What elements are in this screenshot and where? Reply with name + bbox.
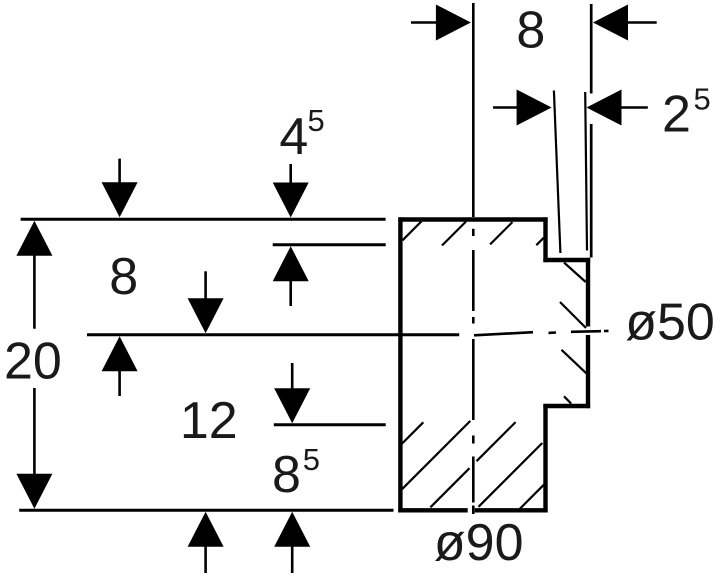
hatch protrusion 3: [562, 350, 587, 374]
bottom edge left segment: [398, 508, 467, 512]
horizontal centerline / dimension line: [87, 331, 609, 335]
bottom-right vertical: [543, 404, 547, 513]
part outline cross-section: [398, 217, 590, 512]
left edge: [398, 217, 402, 512]
hatch protrusion 1: [564, 263, 586, 283]
hatch bottom-right corner: [520, 485, 544, 509]
dimension 8 top: extension right line: [590, 4, 593, 258]
svg-text:20: 20: [4, 333, 62, 391]
dimension 8 top right arrow: [593, 5, 657, 41]
svg-text:5: 5: [303, 442, 320, 477]
bottom edge right segment: [475, 508, 548, 512]
hatch protrusion 4: [564, 396, 571, 403]
svg-text:12: 12: [180, 392, 238, 450]
svg-text:8: 8: [109, 248, 138, 306]
hatch bottom c985: [479, 443, 543, 507]
dimension 2.5 slanted extension left: [554, 91, 561, 254]
svg-text:8: 8: [272, 446, 301, 504]
dimension 8.5 arrow up: [274, 512, 310, 573]
dimension 4.5 arrow down: [273, 164, 309, 218]
svg-text:ø50: ø50: [625, 294, 715, 352]
svg-text:2: 2: [662, 85, 691, 143]
dimension 2.5 slanted extension right: [585, 92, 587, 251]
svg-text:4: 4: [279, 108, 308, 166]
dimension 20 arrow up: [16, 221, 52, 256]
dimension 8 left arrow down: [102, 159, 138, 218]
hatching protrusion: [560, 263, 586, 404]
bottom extension line y510: [19, 509, 393, 512]
dimension 4.5 arrow up: [273, 246, 309, 306]
vertical centerline: [472, 3, 475, 514]
hatch bottom long c938 left part: [430, 468, 469, 507]
top extension line y219: [21, 218, 386, 221]
dimension 12 arrow down: [188, 271, 224, 333]
dimension 8 left arrow up: [102, 336, 138, 396]
svg-text:8: 8: [516, 1, 545, 59]
8.5 dimension boundary line: [274, 423, 386, 426]
hatch top second: [442, 222, 466, 246]
dimension 8 top left arrow: [411, 5, 471, 41]
svg-text:5: 5: [694, 82, 711, 117]
svg-text:ø90: ø90: [434, 514, 524, 572]
dimension 8.5 arrow down: [274, 363, 310, 423]
hatch top right of centerline: [490, 222, 512, 244]
dimension 20 arrow down: [16, 474, 52, 509]
dimension 20 vertical line: [33, 253, 36, 476]
dimension 12 arrow up: [188, 512, 224, 573]
right edge upper segment: [586, 258, 590, 327]
hatch protrusion 2: [560, 302, 586, 328]
dimension 2.5 left arrow: [493, 90, 552, 126]
top edge: [398, 217, 547, 221]
right edge lower segment: [586, 335, 590, 408]
step top horizontal: [543, 258, 590, 262]
top-right step vertical: [543, 217, 547, 262]
step bottom horizontal: [543, 404, 590, 408]
4.5 dimension boundary line: [273, 243, 386, 246]
hatch bottom long c891: [402, 421, 471, 490]
dimension 2.5 right arrow: [587, 90, 648, 126]
hatch bottom long c938 right part: [477, 422, 516, 461]
svg-text:5: 5: [308, 103, 325, 138]
hatch bottom-left short: [402, 422, 424, 444]
hatch near top step: [536, 238, 544, 246]
hatching main body: [402, 221, 544, 508]
hatch top-left: [403, 221, 422, 240]
